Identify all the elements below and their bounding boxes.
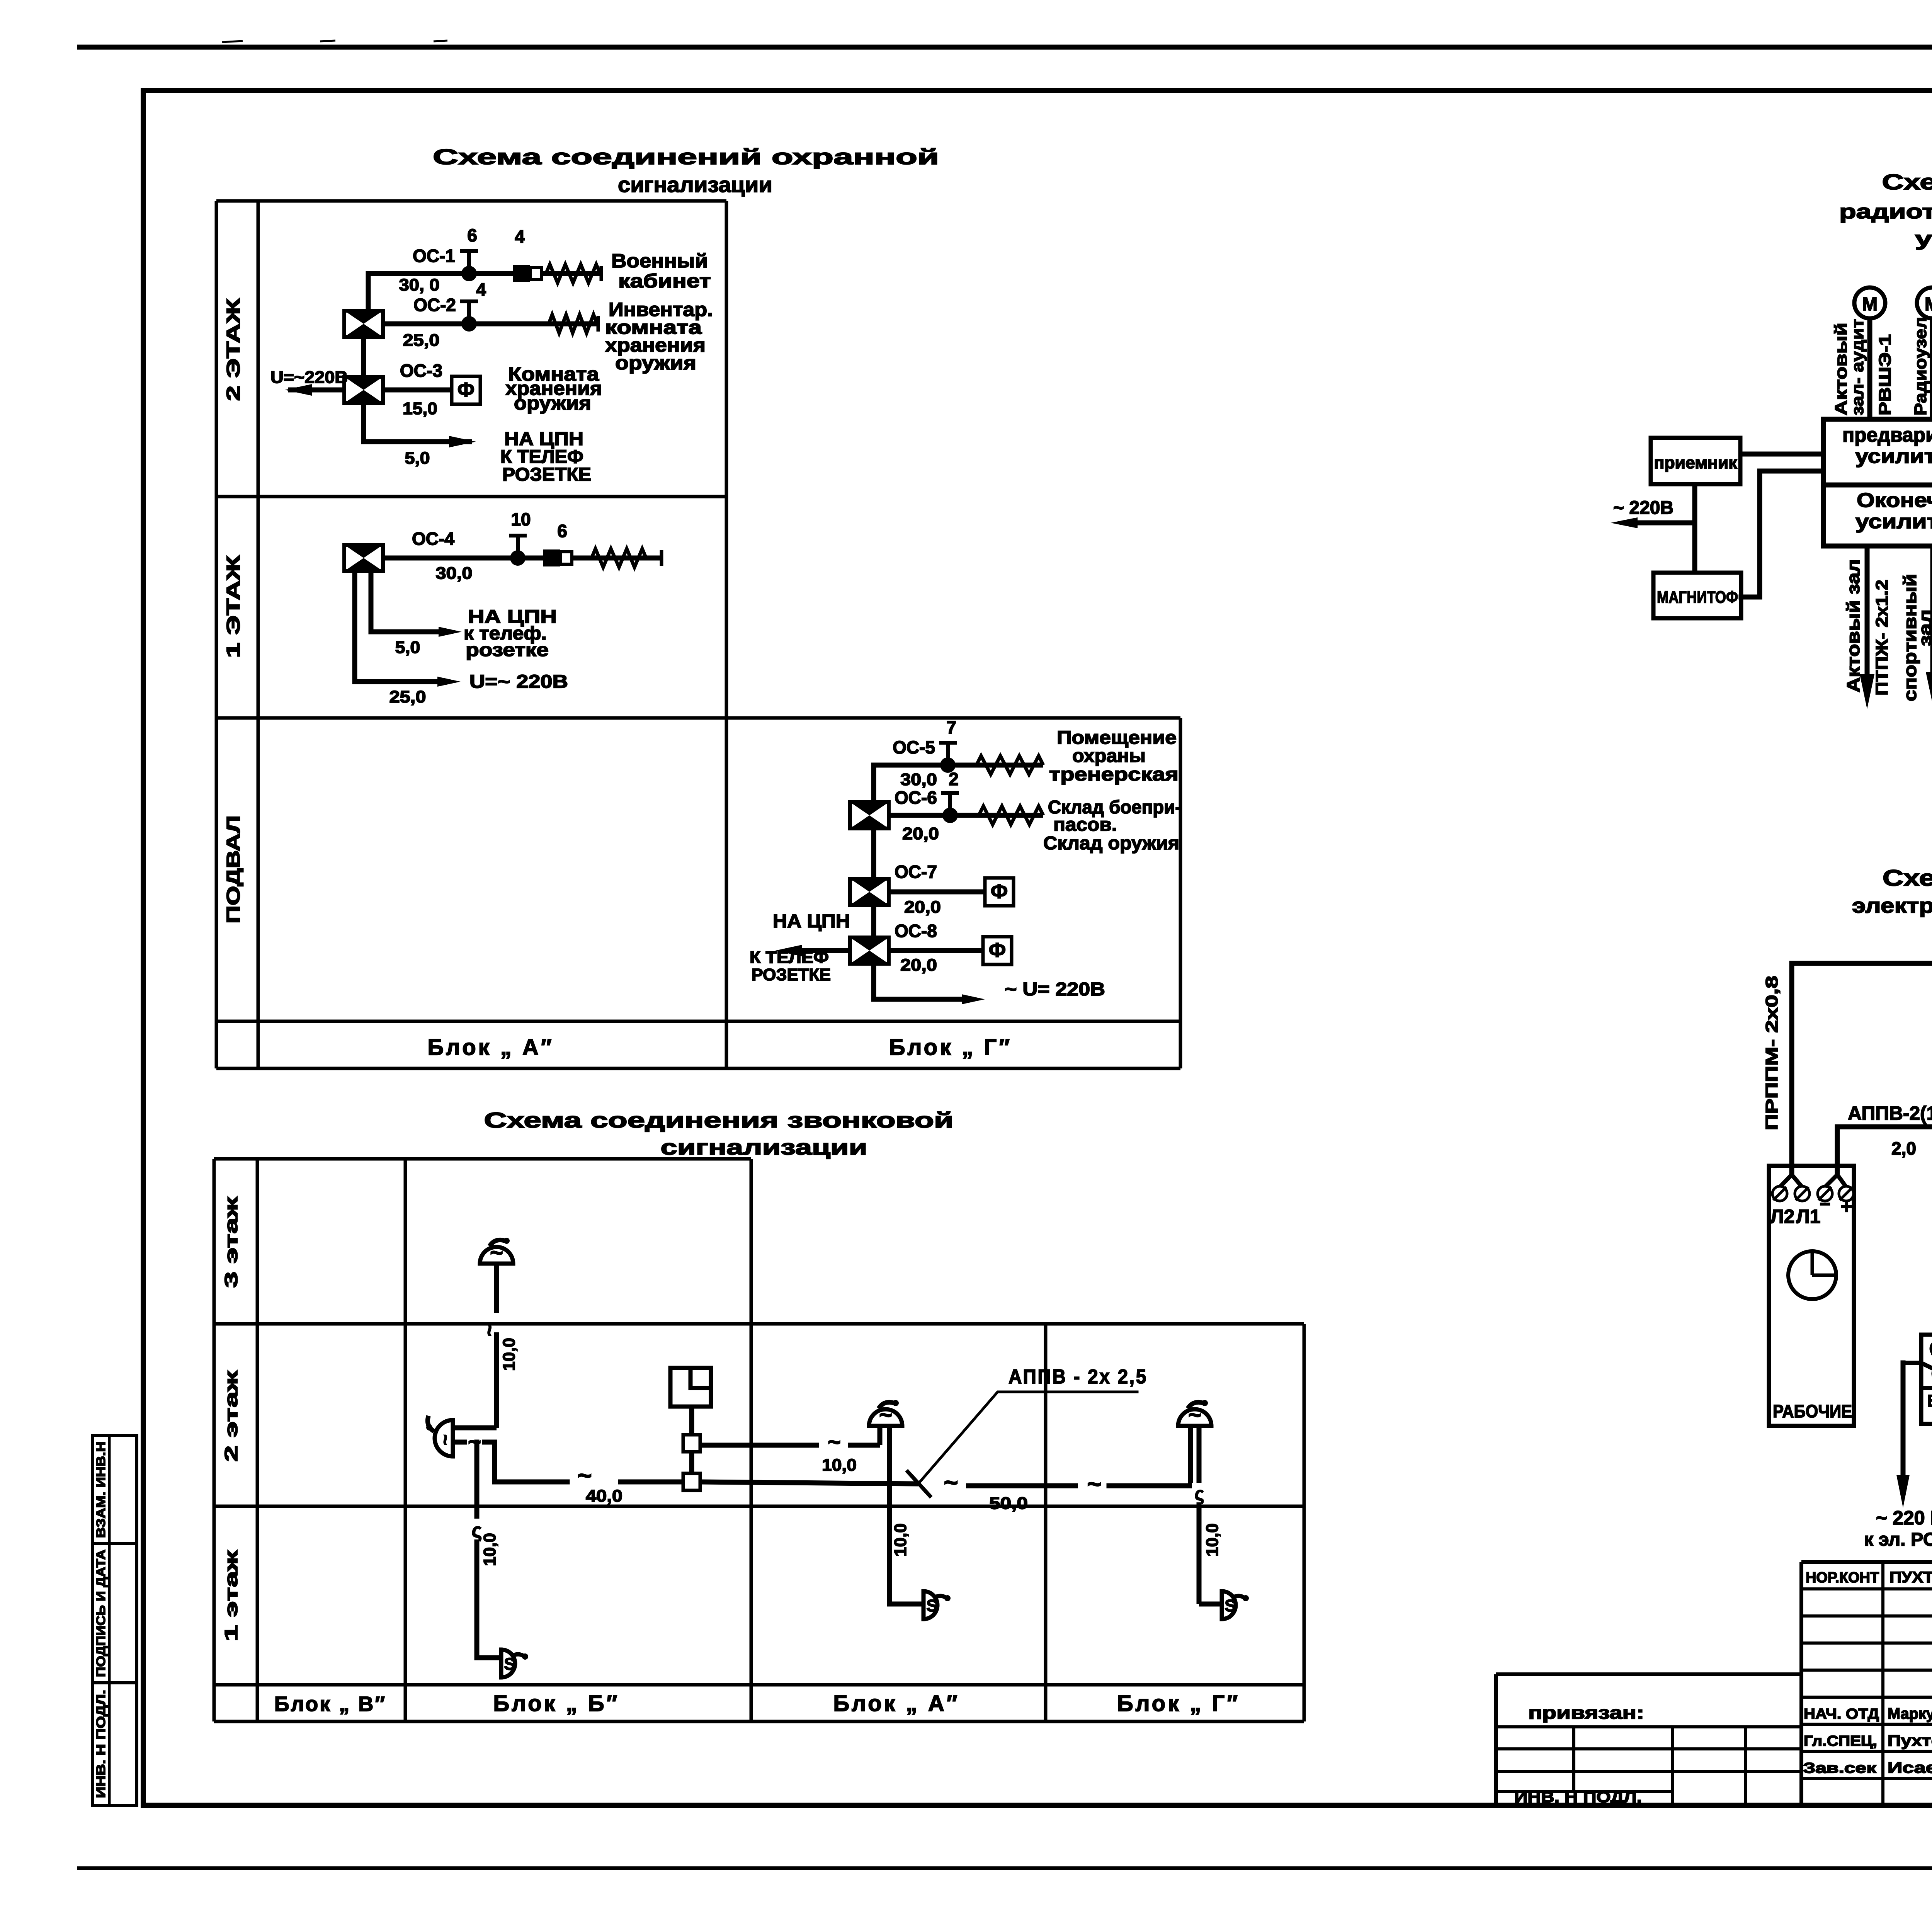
wire trunk подвал (871, 765, 876, 802)
svg-text:РВШЭ-1: РВШЭ-1 (1876, 334, 1895, 415)
svg-text:S: S (926, 1596, 937, 1615)
wire trunk 2 этаж (366, 274, 371, 311)
svg-text:~ 220 В: ~ 220 В (1876, 1507, 1932, 1529)
svg-text:электрочасовой установки: электрочасовой установки (1852, 894, 1932, 917)
svg-text:ОС-4: ОС-4 (412, 529, 454, 549)
wire спорт зал down arrow (1926, 546, 1932, 705)
cross mark X on trunk (906, 1470, 931, 1497)
svg-text:пасов.: пасов. (1053, 815, 1117, 835)
svg-text:Радиоузел: Радиоузел (1911, 317, 1930, 415)
svg-text:ОС-8: ОС-8 (895, 921, 937, 941)
svg-text:10: 10 (511, 509, 531, 529)
label спортивный зал (rotated) (1900, 574, 1932, 701)
svg-text:М: М (1862, 294, 1878, 315)
sheet bottom trim line (77, 1866, 1932, 1870)
svg-text:ОС-1: ОС-1 (413, 246, 455, 266)
wire bowtie to bowtie (361, 337, 366, 377)
svg-text:ПУХТЕЛЬ: ПУХТЕЛЬ (1889, 1569, 1932, 1586)
svg-text:Склад оружия: Склад оружия (1043, 833, 1179, 854)
wire ОС-4 line (383, 556, 663, 561)
svg-text:6: 6 (467, 225, 477, 245)
detector tap T ОС-6 (941, 793, 959, 823)
rectifier terminal a (1931, 1341, 1932, 1356)
room label Помещение охраны тренерская (1049, 728, 1179, 785)
svg-text:10,0: 10,0 (500, 1338, 519, 1371)
label НА ЦПН к телеф. розетке (464, 607, 557, 660)
wire down to 1эт bell (Б) (477, 1442, 500, 1658)
rectifier box Выпрямитель КВ-21/1 (1921, 1335, 1932, 1424)
svg-text:3 этаж: 3 этаж (221, 1197, 241, 1288)
bell 2 этаж Блок Б (426, 1416, 456, 1456)
junction box ОС-6 (bowtie) (850, 802, 889, 828)
svg-text:оружия: оружия (514, 392, 591, 414)
svg-text:~: ~ (1087, 1470, 1101, 1498)
РАБОЧИЕ terminal 3 (1818, 1186, 1832, 1201)
svg-text:РОЗЕТКЕ: РОЗЕТКЕ (752, 965, 831, 984)
bell 3 этаж Блок Б (480, 1238, 513, 1266)
amplifier box (1823, 419, 1932, 546)
detector tap T ОС-4 (509, 536, 527, 566)
wire ОС-7 line (889, 890, 985, 895)
wire to ЦПН 2 этаж (364, 403, 476, 447)
bell table frame (214, 1159, 1304, 1721)
annunciator Ф box ОС-7 (985, 878, 1014, 906)
wire corner to trunk (Б) (495, 1442, 567, 1482)
svg-text:2: 2 (949, 769, 959, 789)
svg-text:Схема соединения звонковой: Схема соединения звонковой (484, 1108, 954, 1132)
row НАЧ.ОТД Маркуцкий (1804, 1703, 1932, 1722)
привязан table (1496, 1674, 1801, 1805)
wire bowtie ОС-6 to ОС-7 (871, 828, 876, 879)
svg-text:Блок „ А″: Блок „ А″ (833, 1691, 959, 1716)
wire ОС-2 line (383, 321, 598, 327)
svg-text:предварительный: предварительный (1842, 424, 1932, 446)
svg-text:Блок „ В″: Блок „ В″ (274, 1692, 386, 1716)
title: Схема соединений охранной сигнализации (433, 145, 939, 197)
svg-text:АППВ-2(1х2,5): АППВ-2(1х2,5) (1848, 1102, 1932, 1124)
svg-text:К ТЕЛЕФ: К ТЕЛЕФ (750, 948, 829, 967)
svg-text:~: ~ (477, 1324, 501, 1337)
svg-text:ПОДВАЛ: ПОДВАЛ (223, 815, 244, 924)
wire box to small square (689, 1407, 694, 1436)
wire bell stub top (Б 2эт) (453, 1425, 497, 1431)
wire bell stub bottom with tilde (Б 2эт) (453, 1430, 495, 1455)
wire ОС-8 line (889, 948, 983, 953)
svg-text:ПОДПИСЬ И ДАТА: ПОДПИСЬ И ДАТА (94, 1550, 108, 1677)
room label Инвентар. комната хранения оружия (605, 299, 713, 374)
wire fork to РАБОЧИЕ terminals 1-2 (1780, 1175, 1802, 1187)
resistor ОС-4 (592, 549, 662, 567)
svg-text:Схема соединений охранной: Схема соединений охранной (433, 145, 939, 169)
svg-text:2,0: 2,0 (1891, 1138, 1916, 1158)
svg-text:4: 4 (476, 279, 486, 299)
svg-text:30,0: 30,0 (436, 564, 473, 583)
junction box ОС-3 (bowtie) (344, 377, 383, 403)
svg-text:охраны: охраны (1072, 746, 1146, 766)
svg-text:20,0: 20,0 (902, 824, 939, 843)
svg-text:сигнализации: сигнализации (661, 1135, 867, 1159)
wire 220V 1 этаж (355, 571, 461, 687)
svg-text:ИНВ. Н ПОДЛ.: ИНВ. Н ПОДЛ. (94, 1690, 108, 1798)
trunk tilde 40,0 (577, 1461, 592, 1489)
wire switch top to РАБОЧИЕ clock (1792, 963, 1932, 1175)
svg-text:Блок „ Г″: Блок „ Г″ (889, 1035, 1012, 1060)
svg-text:зал: зал (1915, 609, 1932, 646)
connector ОС-1 (513, 265, 542, 282)
wire ОС-1 line (368, 271, 601, 276)
svg-text:тренерская: тренерская (1049, 764, 1179, 785)
wire bowtie ОС-7 to ОС-8 (871, 905, 876, 937)
row ГЛ.СПЕЦ Пухтель (1804, 1732, 1932, 1750)
svg-text:РОЗЕТКЕ: РОЗЕТКЕ (502, 464, 591, 485)
svg-text:розетке: розетке (466, 640, 549, 660)
svg-text:НА ЦПН: НА ЦПН (773, 911, 850, 932)
svg-text:ОС-5: ОС-5 (893, 737, 935, 757)
svg-text:20,0: 20,0 (904, 898, 941, 917)
svg-text:привязан:: привязан: (1528, 1703, 1644, 1723)
svg-text:Ф: Ф (989, 939, 1006, 961)
resistor ОС-2 (549, 315, 598, 333)
wire amplifier to магнитофон (1741, 471, 1823, 597)
leader line АППВ-2х2,5 (919, 1392, 1137, 1483)
junction box ОС-8 (bowtie) (850, 937, 889, 964)
svg-text:Схема соединения: Схема соединения (1882, 170, 1932, 194)
row НОР.КОНТ Пухтель (1806, 1569, 1932, 1586)
label Оконечный усилитель (1855, 489, 1932, 533)
wire rectifier to 220V down arrow (1896, 1363, 1932, 1508)
wire M2 to amplifier (1930, 318, 1932, 419)
wire between squares (689, 1452, 694, 1473)
РАБОЧИЕ terminal 4 (1839, 1186, 1854, 1201)
svg-text:усилитель: усилитель (1855, 445, 1932, 468)
wire square to bell А (10,0 line) (700, 1426, 880, 1455)
svg-text:Схема соединения: Схема соединения (1883, 866, 1932, 891)
sidebar box ПОДПИСЬ И ДАТА (92, 1544, 137, 1683)
svg-text:ПРППМ- 2х0,8: ПРППМ- 2х0,8 (1762, 976, 1781, 1130)
svg-text:Актовый зал: Актовый зал (1843, 559, 1863, 692)
РАБОЧИЕ terminal 2 (1795, 1186, 1810, 1201)
wire to ЦПН 1 этаж (371, 571, 462, 637)
svg-text:~ U= 220В: ~ U= 220В (1005, 979, 1105, 1000)
svg-text:Гл.СПЕЦ,: Гл.СПЕЦ, (1804, 1733, 1877, 1749)
svg-text:10,0: 10,0 (822, 1456, 857, 1475)
svg-text:10,0: 10,0 (1203, 1523, 1222, 1556)
svg-text:Блок „ А″: Блок „ А″ (427, 1035, 554, 1060)
svg-text:25,0: 25,0 (403, 331, 440, 350)
detector tap T ОС-5 (939, 743, 957, 773)
labels Л2 Л1 - + (1770, 1194, 1853, 1227)
title: Схема соединения электрочасовой установки (1852, 866, 1932, 917)
junction small square upper (683, 1435, 700, 1452)
trunk segment to bell Г (1109, 1426, 1190, 1486)
junction small square on trunk (683, 1473, 700, 1490)
bell 1 этаж Блок А (923, 1591, 951, 1619)
svg-text:ς: ς (1195, 1484, 1204, 1504)
junction box ОС-2 (bowtie) (344, 311, 383, 337)
junction box ОС-7 (bowtie) (850, 879, 889, 905)
svg-text:1 этаж: 1 этаж (221, 1550, 241, 1641)
svg-text:ОС-3: ОС-3 (400, 361, 442, 381)
svg-text:НОР.КОНТ: НОР.КОНТ (1806, 1570, 1879, 1586)
microphone M2 circle (1917, 287, 1932, 318)
wire ОС-6 line (889, 813, 1043, 818)
svg-text:Военный: Военный (611, 250, 708, 272)
svg-text:50,0: 50,0 (989, 1494, 1028, 1513)
svg-text:30, 0: 30, 0 (399, 276, 440, 294)
label Актовый зал-аудит (rotated) (1832, 319, 1867, 415)
svg-text:Блок „ Б″: Блок „ Б″ (493, 1691, 620, 1716)
svg-text:20,0: 20,0 (900, 956, 937, 975)
room label Комната хранения оружия (505, 363, 602, 414)
connector ОС-4 (543, 549, 572, 566)
wire bell 3эт down (494, 1264, 499, 1428)
bell 2 этаж Блок А (869, 1400, 902, 1428)
svg-text:4: 4 (515, 226, 525, 247)
svg-text:радиотрансляционного: радиотрансляционного (1839, 201, 1932, 223)
bell 1 этаж Блок Б (501, 1650, 528, 1677)
svg-text:1 ЭТАЖ: 1 ЭТАЖ (223, 555, 244, 658)
detector tap T ОС-2 (460, 301, 478, 332)
svg-text:−: − (1820, 1194, 1830, 1214)
wire bell Г down (1197, 1426, 1202, 1604)
trunk segment 50,0 (966, 1483, 1078, 1488)
svg-text:U=~220В: U=~220В (270, 368, 348, 387)
wire акт зал down arrow (1860, 546, 1874, 709)
junction box ОС-4 (bowtie) (344, 545, 383, 571)
svg-text:~ 220В: ~ 220В (1613, 498, 1673, 518)
svg-text:РАБОЧИЕ: РАБОЧИЕ (1773, 1401, 1852, 1421)
svg-text:НАЧ. ОТД: НАЧ. ОТД (1804, 1706, 1879, 1722)
wire break S symbol (Г) (1192, 1483, 1207, 1504)
svg-text:S: S (504, 1655, 515, 1674)
svg-text:~: ~ (828, 1430, 841, 1455)
room label Склад боеприпасов склад оружия (1043, 797, 1181, 854)
svg-text:сигнализации: сигнализации (618, 172, 772, 197)
svg-text:МАГНИТОФ: МАГНИТОФ (1657, 588, 1738, 607)
label НА ЦПН К ТЕЛЕФ РОЗЕТКЕ (500, 429, 591, 485)
svg-text:к эл. РОЗЕТКЕ: к эл. РОЗЕТКЕ (1864, 1529, 1932, 1550)
clock face РАБОЧИЕ (1788, 1251, 1836, 1299)
svg-text:Блок „ Г″: Блок „ Г″ (1117, 1691, 1240, 1716)
svg-text:2 этаж: 2 этаж (221, 1371, 241, 1462)
svg-text:М: М (1925, 294, 1932, 315)
svg-text:ОС-6: ОС-6 (895, 788, 937, 808)
pushbutton box with notch (2эт Б) (670, 1368, 711, 1407)
svg-text:Оконечный: Оконечный (1857, 489, 1932, 512)
svg-text:U=~ 220В: U=~ 220В (469, 672, 568, 692)
bell 2 этаж Блок Г (1178, 1400, 1211, 1428)
wire bell А down through trunk (887, 1426, 892, 1604)
svg-text:оружия: оружия (615, 352, 696, 374)
working clock box РАБОЧИЕ (1769, 1166, 1854, 1426)
svg-text:кабинет: кабинет (618, 270, 711, 292)
svg-text:7: 7 (946, 717, 956, 737)
annunciator Ф box ОС-3 (452, 376, 480, 404)
resistor ОС-6 (979, 806, 1043, 825)
svg-text:6: 6 (557, 521, 567, 541)
trunk segment to junction box (618, 1480, 684, 1485)
wire ОС-3 line (383, 388, 452, 393)
svg-text:5,0: 5,0 (405, 449, 430, 468)
trunk segment through Блок А (700, 1482, 918, 1484)
alarm table frame (216, 201, 1180, 1068)
title: Схема соединения звонковой сигнализации (484, 1108, 954, 1159)
sheet top trim line (77, 41, 1932, 47)
svg-text:2 ЭТАЖ: 2 ЭТАЖ (223, 298, 244, 401)
svg-text:Актовый: Актовый (1832, 323, 1850, 415)
label предварительный усилитель (1842, 424, 1932, 468)
svg-text:10,0: 10,0 (891, 1523, 910, 1556)
svg-text:S: S (1225, 1596, 1236, 1615)
resistor ОС-5 (976, 756, 1043, 774)
svg-text:~: ~ (577, 1461, 592, 1489)
svg-text:Выпрямитель: Выпрямитель (1927, 1391, 1932, 1410)
АППВ bracket left (1837, 1127, 1932, 1312)
svg-text:ОС-2: ОС-2 (413, 295, 456, 315)
row ЗАВ.СЕК Исаева (1803, 1759, 1932, 1776)
sidebar box ВЗАМ.ИНВ.N (92, 1436, 137, 1544)
wire fork to РАБОЧИЕ terminals 3-4 (1825, 1175, 1846, 1187)
svg-text:ВЗАМ. ИНВ.Н: ВЗАМ. ИНВ.Н (94, 1441, 108, 1538)
wire 220V arrow left (radio) (1611, 517, 1695, 528)
signature table grid (1801, 1562, 1932, 1805)
svg-text:~: ~ (435, 1434, 456, 1445)
svg-text:Помещение: Помещение (1057, 728, 1177, 748)
wire приемник to магнитофон (1692, 484, 1697, 573)
svg-text:5,0: 5,0 (395, 638, 420, 657)
svg-text:приемник: приемник (1654, 453, 1738, 472)
annunciator Ф box ОС-8 (983, 937, 1012, 964)
receiver box приемник (1651, 438, 1740, 484)
svg-text:ИНВ. Н ПОДЛ.: ИНВ. Н ПОДЛ. (1514, 1789, 1642, 1806)
svg-text:усилителя: усилителя (1915, 228, 1932, 250)
svg-text:10,0: 10,0 (480, 1533, 499, 1566)
sidebar box ИНВ.N ПОДЛ (92, 1683, 137, 1805)
wire M1 to amplifier (1867, 318, 1872, 419)
svg-text:40,0: 40,0 (586, 1487, 622, 1505)
svg-text:Ф: Ф (991, 880, 1008, 903)
wire 220V arrow left from ОС-3 (285, 384, 344, 396)
wire 220V подвал (874, 964, 985, 1004)
svg-text:зал- аудит: зал- аудит (1848, 319, 1867, 415)
microphone M1 circle (1854, 287, 1885, 318)
svg-text:усилитель: усилитель (1855, 510, 1932, 533)
svg-text:30,0: 30,0 (900, 770, 937, 789)
wire НА ЦПН arrow left (подвал) (775, 945, 850, 956)
resistor ОС-1 (546, 264, 601, 283)
svg-text:ОС-7: ОС-7 (895, 862, 937, 882)
label К ТЕЛЕФ РОЗЕТКЕ (подвал) (750, 948, 831, 984)
svg-text:25,0: 25,0 (389, 687, 426, 706)
svg-text:Л1: Л1 (1796, 1206, 1821, 1227)
svg-text:15,0: 15,0 (403, 399, 437, 418)
room label Военный кабинет (611, 250, 711, 292)
detector tap T ОС-1 (460, 251, 478, 281)
wire corner to 1эт bell А (889, 1602, 923, 1607)
svg-text:Л2: Л2 (1770, 1206, 1795, 1227)
wire corner to 1эт bell Г (1199, 1602, 1222, 1607)
РАБОЧИЕ terminal 1 (1772, 1186, 1787, 1201)
svg-text:~: ~ (944, 1468, 958, 1496)
svg-text:Зав.сек: Зав.сек (1803, 1760, 1877, 1776)
wire break S symbol (Б) (468, 1519, 485, 1542)
svg-text:Маркуцкий: Маркуцкий (1888, 1705, 1932, 1722)
bell 1 этаж Блок Г (1222, 1591, 1249, 1619)
svg-text:ПТПЖ- 2х1.2: ПТПЖ- 2х1.2 (1872, 580, 1891, 696)
tape recorder box МАГНИТОФ (1653, 573, 1741, 618)
wire приемник to amplifier (1740, 452, 1823, 457)
svg-text:Исаева: Исаева (1888, 1759, 1932, 1776)
svg-text:Ф: Ф (457, 379, 474, 401)
title: Схема соединения радиотрансляционного усилителя (1839, 170, 1932, 250)
svg-text:Пухтель: Пухтель (1888, 1732, 1932, 1749)
svg-text:+: + (1841, 1196, 1852, 1218)
svg-text:АППВ - 2х 2,5: АППВ - 2х 2,5 (1009, 1366, 1148, 1388)
wire ОС-5 line (874, 763, 1043, 768)
